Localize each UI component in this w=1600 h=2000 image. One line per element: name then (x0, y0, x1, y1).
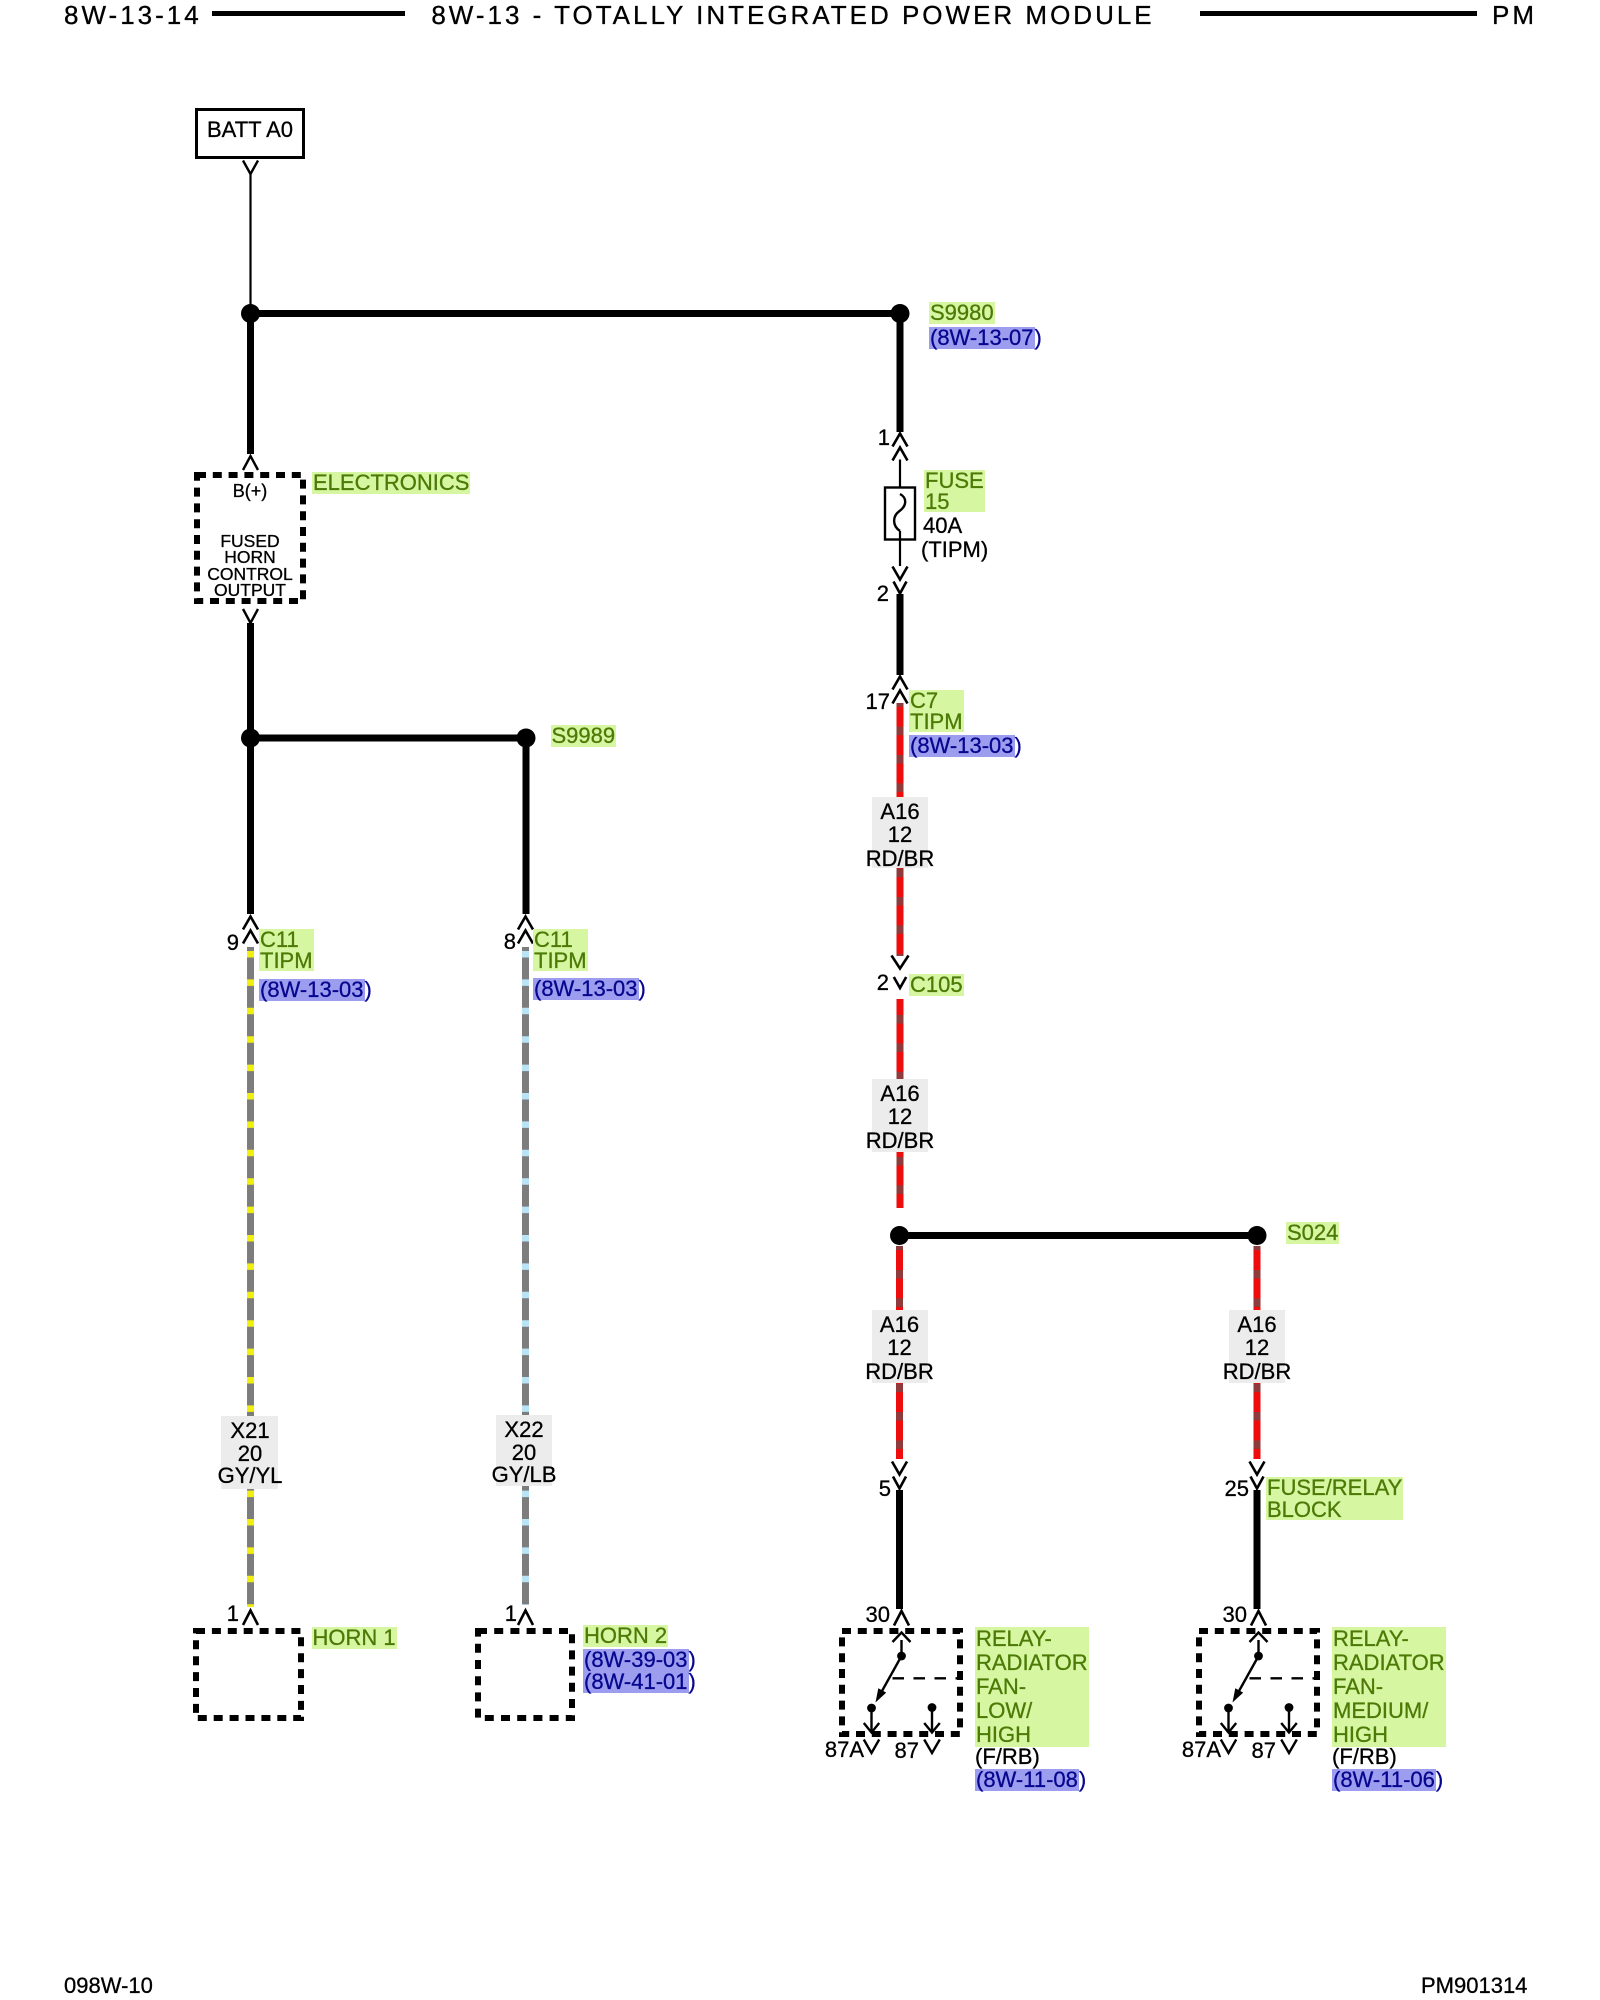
header rule left (212, 11, 405, 16)
label C11 left ref (259, 979, 372, 1001)
label relay1 ref (975, 1769, 1086, 1791)
label RELAY-RADIATOR FAN-MEDIUM/HIGH (1332, 1627, 1446, 1747)
arrow out of BATT A0 (243, 161, 258, 175)
wire label plate X21 (221, 1416, 278, 1489)
label relay2 ref (1332, 1769, 1443, 1791)
pin 30 number relay1 (866, 1604, 890, 1626)
wire pin25 to relay med/high pin 30 (1254, 1490, 1261, 1609)
relay radiator fan low/high coil linkage dashed (893, 1677, 961, 1679)
label A16 12 RD/BR #3 (865, 1313, 933, 1383)
component HORN 1 dashed box (196, 1631, 301, 1718)
label S9980 (929, 302, 995, 324)
wire bus S024 (900, 1232, 1258, 1239)
pin arrow into ELECTRONICS B(+) (243, 456, 258, 470)
wire label plate X22 (496, 1415, 552, 1486)
wire ELECTRONICS to splice S9989 (247, 623, 254, 738)
header rule right (1200, 11, 1477, 16)
connector C7 pin 17 chevrons (893, 677, 908, 690)
splice S9989 right dot (517, 729, 536, 748)
wire bus S9989 (251, 735, 527, 742)
label BATT A0 (207, 119, 293, 141)
pin 87 relay2 (1252, 1740, 1276, 1762)
wire S9989 to C11 pin 9 (247, 738, 254, 914)
relay radiator fan low/high dashed box (842, 1631, 960, 1734)
pin 30 number relay2 (1223, 1604, 1247, 1626)
label RELAY-RADIATOR FAN-LOW/HIGH (975, 1627, 1089, 1747)
splice S9980 dot (891, 304, 910, 323)
relay radiator fan medium/high common arm arrow up (1257, 1640, 1259, 1656)
pin 9 number (227, 932, 239, 954)
wire A16 12 RD/BR segment 2 (897, 999, 904, 1208)
label C11 TIPM right (533, 929, 588, 971)
label B(+) (233, 482, 268, 500)
label S024 (1286, 1222, 1339, 1244)
relay radiator fan medium/high coil linkage dashed (1250, 1677, 1318, 1679)
header PM (1492, 2, 1537, 28)
label C7 TIPM (909, 690, 964, 732)
label A16 12 RD/BR #4 (1223, 1313, 1291, 1383)
wire label plate A16 #4 (1229, 1310, 1285, 1383)
wire bus to S9980 (251, 310, 901, 317)
wire A16 RD/BR below S024 left (896, 1246, 903, 1459)
wire A16 12 RD/BR segment 1 (897, 703, 904, 956)
label C105 (909, 974, 964, 996)
relay radiator fan medium/high dashed box (1199, 1631, 1317, 1734)
label FUSE 15 (924, 470, 985, 512)
pin 87A relay1 (825, 1739, 864, 1761)
wire S9980 to fuse pin 1 (897, 314, 904, 433)
label X22 20 GY/LB (492, 1419, 557, 1487)
fuse/relay block pin 5 chevrons (892, 1462, 907, 1475)
pin 1 number horn1 (227, 1603, 239, 1625)
pin 17 number (866, 691, 890, 713)
fuse pin 2 chevrons (893, 567, 908, 580)
label ELECTRONICS (312, 472, 470, 494)
relay radiator fan low/high pin 87A chevron below box (864, 1740, 879, 1754)
battery feed box BATT A0 (197, 110, 304, 158)
wire X21 20 GY/YL (247, 947, 254, 1607)
label C11 right ref (533, 978, 646, 1000)
splice S024 left dot (890, 1226, 909, 1245)
wire A16 RD/BR below S024 right (1254, 1246, 1261, 1459)
splice S9989 left dot (241, 729, 260, 748)
wire pin5 to relay low pin 30 (896, 1490, 903, 1609)
footer left 098W-10 (64, 1975, 153, 1997)
label HORN 2 ref1 (583, 1649, 696, 1671)
wire BATT A0 to splice S9980 bus (thin) (249, 174, 251, 306)
wire label plate A16 #2 (872, 1079, 928, 1152)
label S9980 ref (929, 327, 1042, 349)
label (TIPM) (921, 539, 988, 561)
label C11 TIPM left (259, 929, 314, 971)
pin 5 number (879, 1478, 891, 1500)
label A16 12 RD/BR #2 (866, 1082, 934, 1152)
label S9989 (551, 725, 617, 747)
relay radiator fan medium/high pivot dot (1254, 1652, 1263, 1661)
relay pin 30 chevron (radiator fan medium/high) (1251, 1611, 1266, 1626)
relay radiator fan low/high common arm arrow up (900, 1640, 902, 1656)
wire label plate A16 #3 (872, 1310, 928, 1383)
label FUSED HORN CONTROL OUTPUT (207, 533, 293, 599)
wire splice to ELECTRONICS B(+) (247, 314, 254, 455)
footer right PM901314 (1421, 1975, 1527, 1997)
relay radiator fan low/high pivot dot (897, 1652, 906, 1661)
label HORN 2 ref2 (583, 1671, 696, 1693)
relay radiator fan low/high contact 87 dot (928, 1703, 937, 1712)
pin 1 number (878, 427, 890, 449)
label HORN 1 (312, 1627, 397, 1649)
junction dot left of bus (241, 304, 260, 323)
header page number (64, 2, 202, 28)
relay radiator fan low/high contact 87A dot (867, 1704, 876, 1713)
relay radiator fan medium/high contact 87 dot (1285, 1703, 1294, 1712)
label (F/RB) relay2 (1332, 1746, 1397, 1768)
pin 25 number (1225, 1478, 1249, 1500)
pin 2 number at C105 (877, 972, 889, 994)
connector C11 pin 8 chevrons (518, 917, 533, 930)
label 40A (923, 515, 962, 537)
pin 2 number (877, 583, 889, 605)
connector C11 pin 9 chevrons (243, 917, 258, 930)
relay pin 30 chevron (radiator fan low/high) (894, 1611, 909, 1626)
relay radiator fan medium/high contact 87A dot (1224, 1704, 1233, 1713)
label A16 12 RD/BR #1 (866, 800, 934, 870)
connector C105 pin 2 chevrons (892, 956, 909, 969)
module ELECTRONICS dashed box (197, 475, 303, 601)
component HORN 2 dashed box (478, 1631, 572, 1718)
relay radiator fan low/high switch arm to 87A (882, 1656, 902, 1691)
connector HORN 1 pin 1 chevron (243, 1611, 258, 1626)
fuse/relay block pin 25 chevrons (1250, 1462, 1265, 1475)
fuse pin 1 chevrons (893, 434, 908, 447)
wire X22 20 GY/LB (522, 947, 529, 1605)
relay radiator fan low/high pin 87 chevron below box (924, 1740, 940, 1754)
splice S024 right dot (1248, 1226, 1267, 1245)
wire into fuse (thin) (899, 460, 901, 495)
wire label plate A16 #1 (872, 797, 928, 868)
fuse element curve (894, 494, 905, 531)
label C7 ref (909, 735, 1022, 757)
label HORN 2 (583, 1625, 668, 1647)
relay radiator fan medium/high switch arm to 87A (1239, 1656, 1259, 1691)
relay radiator fan medium/high pin 87A chevron below box (1221, 1740, 1236, 1754)
label X21 20 GY/YL (218, 1420, 283, 1488)
wire out of fuse (thin) (899, 531, 901, 566)
pin 1 number horn2 (505, 1603, 517, 1625)
header title (431, 2, 1154, 28)
connector HORN 2 pin 1 chevron (518, 1611, 533, 1626)
label FUSE/RELAY BLOCK (1266, 1477, 1403, 1520)
fuse FUSE 15 40A box (885, 488, 915, 540)
pin 87A relay2 (1182, 1739, 1221, 1761)
arrow out of ELECTRONICS (243, 609, 258, 623)
relay radiator fan medium/high pin 87 chevron below box (1281, 1740, 1297, 1754)
wire S9989 to C11 pin 8 (523, 738, 530, 914)
label (F/RB) relay1 (975, 1746, 1040, 1768)
pin 87 relay1 (895, 1740, 919, 1762)
wire fuse to C7 pin 17 (897, 594, 904, 675)
pin 8 number (504, 931, 516, 953)
